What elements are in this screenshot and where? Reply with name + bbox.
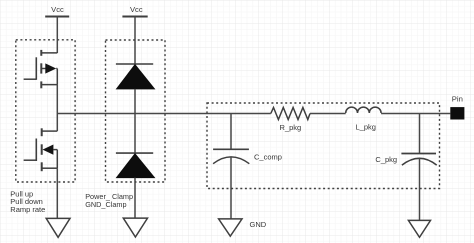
diode D1 power clamp <box>116 64 154 89</box>
power symbol Vcc (left) <box>45 5 69 16</box>
wire L_pkg to pin <box>381 113 450 115</box>
svg-text:C_pkg: C_pkg <box>375 155 397 164</box>
svg-text:GND_Clamp: GND_Clamp <box>85 200 126 209</box>
svg-text:GND: GND <box>250 220 267 229</box>
ground (under Q2) <box>46 218 70 237</box>
wire output node to R_pkg <box>57 113 270 115</box>
dashed box package block <box>207 103 440 189</box>
wire D2 to ground <box>134 178 136 218</box>
transistor Q1 (pull-up MOSFET) <box>24 50 58 88</box>
capacitor C_comp <box>213 114 282 164</box>
transistor Q2 (pull-down MOSFET) <box>24 128 58 171</box>
svg-text:Vcc: Vcc <box>130 5 143 14</box>
pin terminal <box>450 94 464 119</box>
dashed box pull-up/pull-down block <box>16 40 75 182</box>
wire Q2 drain to output node <box>56 114 58 132</box>
wire Q2 source to ground <box>56 168 58 218</box>
ground (under C_comp) <box>219 219 242 236</box>
diode D2 gnd clamp <box>116 153 154 178</box>
dashed box clamp block <box>106 40 166 182</box>
inductor L_pkg <box>346 107 381 131</box>
ground (under clamps) <box>123 218 147 237</box>
svg-text:Pin: Pin <box>452 94 463 103</box>
svg-text:C_comp: C_comp <box>254 152 282 161</box>
svg-text:Vcc: Vcc <box>51 5 64 14</box>
wire Q1 source to output node <box>56 85 58 114</box>
label Pull up / Pull down / Ramp rate <box>10 190 45 214</box>
wire D1 to D2 <box>134 89 136 153</box>
resistor R_pkg <box>271 108 310 133</box>
svg-text:R_pkg: R_pkg <box>280 123 302 132</box>
wire R_pkg to L_pkg <box>310 113 346 115</box>
svg-text:Ramp rate: Ramp rate <box>10 205 45 214</box>
wire C_comp to ground <box>230 157 232 219</box>
label Power_ Clamp / GND_Clamp <box>85 192 133 209</box>
capacitor C_pkg <box>375 114 436 166</box>
wire Vcc to D1 <box>134 17 136 65</box>
wire Vcc to Q1 drain <box>56 17 58 54</box>
ground (under C_pkg) <box>408 220 430 237</box>
power symbol Vcc (middle) <box>122 5 147 16</box>
wire C_pkg to ground <box>419 159 421 221</box>
svg-text:L_pkg: L_pkg <box>356 122 376 131</box>
